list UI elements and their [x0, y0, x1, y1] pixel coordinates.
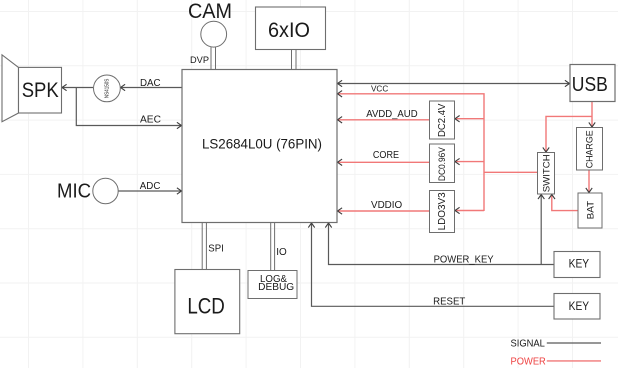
svg-text:LS2684L0U (76PIN): LS2684L0U (76PIN) — [202, 137, 322, 152]
bus 6xIO to chip (double line) — [292, 50, 297, 70]
wire AVDD_AUD (red) — [337, 119, 430, 121]
svg-text:SIGNAL: SIGNAL — [511, 339, 546, 350]
speaker SPK — [2, 55, 19, 122]
svg-text:DEBUG: DEBUG — [258, 282, 294, 293]
chip U1 LS2684L0U — [182, 70, 337, 223]
regulator DC0.96V — [430, 144, 455, 183]
svg-text:MIC: MIC — [57, 180, 91, 203]
svg-text:CORE: CORE — [373, 150, 399, 161]
power rail from regulators to chip (red) — [337, 94, 538, 211]
block 6xIO — [256, 7, 326, 50]
arrow into DC0.96V — [455, 158, 460, 164]
arrow into SWITCH bottom (black) — [538, 195, 544, 200]
svg-text:LDO3V3: LDO3V3 — [437, 192, 448, 231]
battery BAT — [578, 193, 602, 228]
arrow into SPK — [62, 84, 67, 90]
wire RESET: KEY2 to chip — [312, 223, 555, 307]
bus IO chip to debug (double line) — [271, 223, 275, 271]
svg-text:BAT: BAT — [585, 201, 596, 220]
svg-text:USB: USB — [572, 73, 608, 96]
svg-text:POWER_KEY: POWER_KEY — [434, 255, 494, 266]
block USB — [570, 65, 615, 102]
wire CORE (red) — [337, 161, 430, 163]
block KEY (power key) — [554, 252, 600, 278]
svg-text:6xIO: 6xIO — [268, 19, 310, 42]
svg-text:CHARGE: CHARGE — [585, 130, 595, 168]
wire DAC net: chip to amp to SPK — [62, 87, 183, 89]
wire ADC: mic to chip — [118, 190, 182, 192]
svg-text:AEC: AEC — [140, 115, 162, 126]
wire VDDIO (red) — [337, 210, 430, 212]
block LOG&DEBUG — [248, 271, 297, 299]
arrow into SWITCH bottom (red) — [549, 195, 555, 200]
block LCD — [175, 270, 240, 334]
svg-text:VDDIO: VDDIO — [371, 200, 402, 211]
svg-text:DAC: DAC — [140, 78, 161, 89]
svg-text:VCC: VCC — [371, 85, 388, 94]
block SWITCH — [538, 153, 555, 195]
svg-text:SPK: SPK — [22, 79, 59, 102]
wire AEC: junction to chip — [76, 88, 182, 126]
svg-text:ADC: ADC — [140, 181, 161, 192]
wire USB power to CHARGE and SWITCH (red) — [546, 102, 592, 153]
bus SPI chip to LCD (double line) — [202, 223, 206, 270]
svg-text:AVDD_AUD: AVDD_AUD — [366, 109, 417, 120]
svg-text:DC2.4V: DC2.4V — [437, 103, 448, 137]
arrow AEC into chip — [177, 122, 182, 128]
arrow RESET into chip — [308, 223, 314, 228]
svg-text:SWITCH: SWITCH — [541, 154, 552, 192]
arrow ADC into chip — [177, 188, 182, 194]
svg-text:KEY: KEY — [569, 301, 590, 313]
regulator LDO3V3 — [430, 191, 455, 233]
svg-text:NS4150S: NS4150S — [105, 78, 111, 98]
svg-text:RESET: RESET — [433, 296, 466, 307]
arrow into LDO3V3 — [455, 207, 460, 213]
bus DVP camera to chip (double line) — [211, 47, 216, 70]
svg-text:KEY: KEY — [569, 258, 590, 270]
svg-text:DVP: DVP — [190, 55, 209, 66]
block CHARGE — [577, 128, 603, 171]
wire BAT to SWITCH (red) — [552, 194, 578, 211]
amplifier NS4150 — [94, 75, 121, 102]
svg-text:SPI: SPI — [208, 244, 224, 255]
svg-text:POWER: POWER — [511, 356, 547, 367]
arrow into amp — [121, 84, 126, 90]
wire POWER_KEY: KEY1 to chip with branch to SWITCH — [329, 194, 555, 265]
arrow rail into chip — [338, 91, 343, 97]
svg-text:LCD: LCD — [187, 294, 225, 319]
arrow into SWITCH top — [543, 147, 549, 152]
arrow into DC2.4V — [455, 116, 460, 122]
arrow POWER_KEY into chip — [325, 223, 331, 228]
svg-text:IO: IO — [276, 247, 287, 258]
arrow into BAT top — [586, 188, 592, 193]
wire VCC: chip to USB (double arrow) — [337, 83, 570, 85]
svg-text:CAM: CAM — [188, 0, 232, 23]
svg-text:DC0.96V: DC0.96V — [437, 146, 447, 181]
regulator DC2.4V — [430, 101, 455, 139]
block KEY (reset) — [554, 294, 600, 320]
arrow into CHARGE top — [589, 122, 595, 127]
wire CHARGE to BAT (red) — [588, 170, 590, 193]
